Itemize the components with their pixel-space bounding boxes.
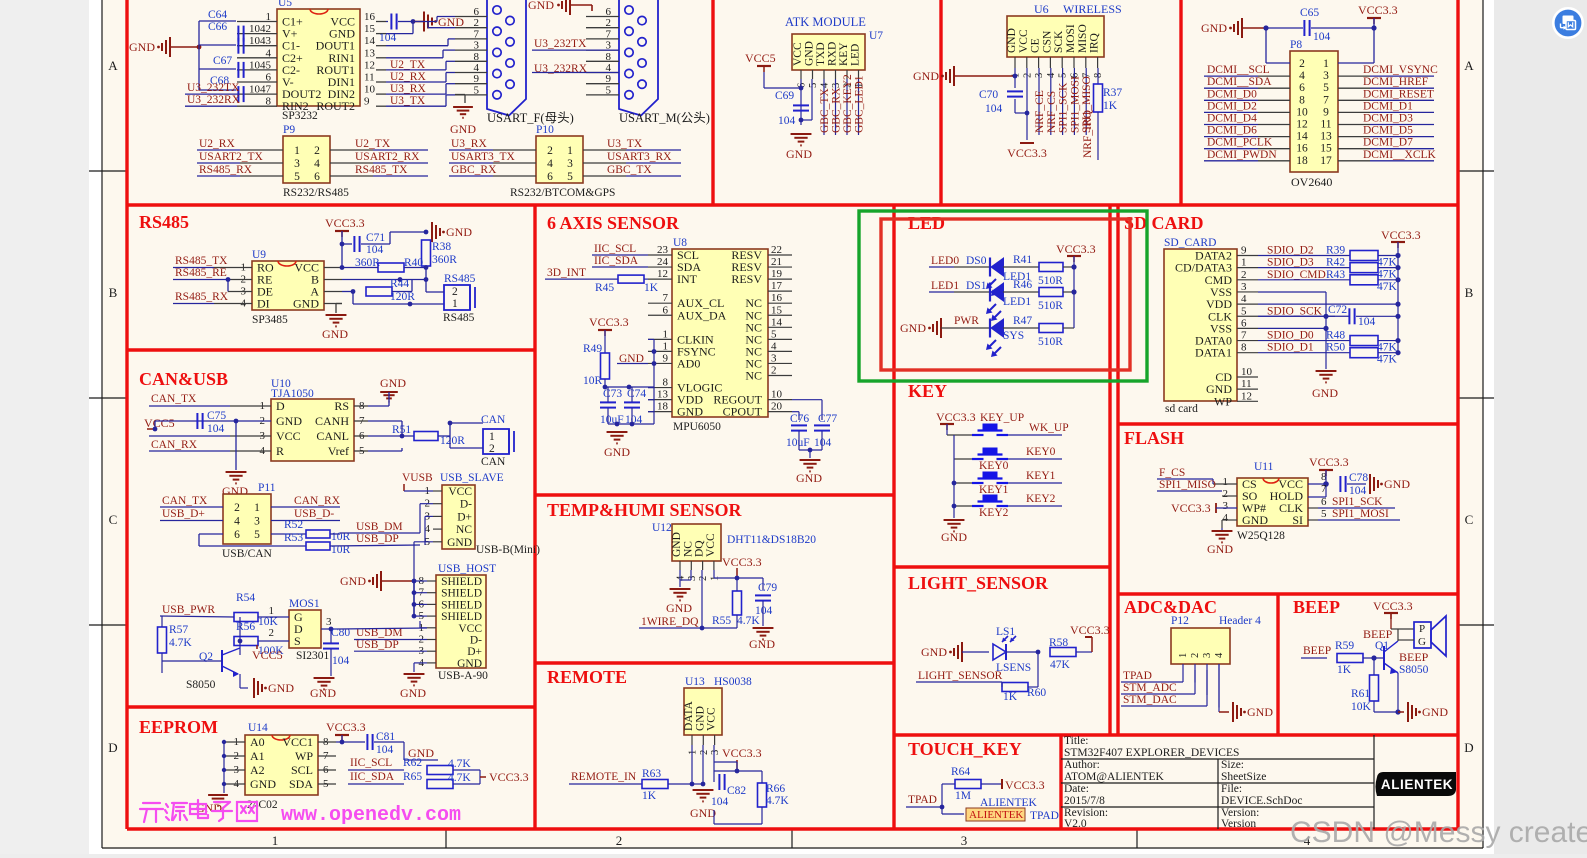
svg-text:1: 1 bbox=[1178, 653, 1189, 658]
svg-text:DCMI_D3: DCMI_D3 bbox=[1363, 113, 1413, 125]
svg-text:VCC3.3: VCC3.3 bbox=[722, 746, 762, 760]
svg-text:12: 12 bbox=[364, 59, 375, 71]
svg-text:DCMI__XCLK: DCMI__XCLK bbox=[1363, 149, 1437, 161]
svg-text:16: 16 bbox=[771, 292, 783, 304]
svg-text:1: 1 bbox=[1223, 476, 1229, 488]
svg-text:CAN_TX: CAN_TX bbox=[151, 393, 197, 405]
svg-text:R52: R52 bbox=[284, 519, 303, 531]
svg-text:R43: R43 bbox=[1326, 269, 1345, 281]
svg-text:D-: D- bbox=[460, 499, 472, 511]
svg-text:R46: R46 bbox=[1013, 279, 1032, 291]
svg-text:USB-A-90: USB-A-90 bbox=[438, 670, 488, 682]
svg-text:7: 7 bbox=[1321, 483, 1327, 495]
svg-text:R64: R64 bbox=[951, 766, 970, 778]
svg-text:SD CARD: SD CARD bbox=[1124, 213, 1204, 233]
svg-text:GND: GND bbox=[268, 681, 294, 695]
svg-text:SI: SI bbox=[1292, 513, 1303, 527]
svg-text:R53: R53 bbox=[284, 532, 303, 544]
svg-text:GBC_KEY2: GBC_KEY2 bbox=[842, 74, 854, 133]
svg-text:SDIO_D2: SDIO_D2 bbox=[1267, 245, 1314, 257]
svg-text:5: 5 bbox=[1321, 508, 1327, 520]
svg-text:S8050: S8050 bbox=[186, 679, 216, 691]
svg-text:P8: P8 bbox=[1290, 39, 1302, 51]
svg-text:4: 4 bbox=[1299, 70, 1305, 82]
svg-text:GBC_RX: GBC_RX bbox=[451, 164, 497, 176]
svg-text:GND: GND bbox=[1312, 386, 1338, 400]
svg-text:IIC_SDA: IIC_SDA bbox=[594, 255, 639, 267]
svg-text:TEMP&HUMI SENSOR: TEMP&HUMI SENSOR bbox=[547, 500, 743, 520]
svg-text:RS485_TX: RS485_TX bbox=[355, 164, 408, 176]
svg-text:CSN: CSN bbox=[1041, 30, 1053, 53]
svg-text:GND: GND bbox=[913, 69, 939, 83]
svg-text:47K: 47K bbox=[1050, 659, 1071, 671]
svg-text:KEY1: KEY1 bbox=[1026, 470, 1056, 482]
svg-text:DS1: DS1 bbox=[966, 280, 987, 292]
svg-text:RS232/BTCOM&GPS: RS232/BTCOM&GPS bbox=[510, 187, 615, 199]
svg-text:RIN2: RIN2 bbox=[282, 99, 309, 113]
svg-text:U3_RX: U3_RX bbox=[390, 83, 426, 95]
svg-text:6: 6 bbox=[1241, 317, 1247, 329]
svg-text:W25Q128: W25Q128 bbox=[1237, 530, 1285, 542]
svg-text:R42: R42 bbox=[1326, 257, 1345, 269]
svg-text:D: D bbox=[1464, 740, 1473, 755]
svg-text:6 AXIS SENSOR: 6 AXIS SENSOR bbox=[547, 213, 680, 233]
svg-text:104: 104 bbox=[207, 423, 225, 435]
svg-text:U5: U5 bbox=[278, 0, 292, 9]
svg-text:GND: GND bbox=[666, 601, 692, 615]
svg-text:13: 13 bbox=[364, 47, 376, 59]
svg-text:VCC3.3: VCC3.3 bbox=[1309, 455, 1349, 469]
svg-text:SPI1_MOSI: SPI1_MOSI bbox=[1332, 508, 1389, 520]
svg-text:KEY1: KEY1 bbox=[979, 484, 1009, 496]
svg-text:WK_UP: WK_UP bbox=[1029, 422, 1069, 434]
svg-text:GND: GND bbox=[447, 537, 472, 549]
svg-text:SCK: SCK bbox=[1053, 30, 1065, 53]
svg-text:GND: GND bbox=[457, 658, 482, 670]
svg-text:R62: R62 bbox=[403, 757, 422, 769]
svg-text:6: 6 bbox=[1299, 82, 1305, 94]
svg-text:3D_INT: 3D_INT bbox=[547, 267, 586, 279]
svg-text:9: 9 bbox=[663, 352, 669, 364]
svg-text:Version: Version bbox=[1221, 818, 1256, 830]
svg-text:Size:: Size: bbox=[1221, 759, 1244, 771]
svg-text:SPI1_SCK: SPI1_SCK bbox=[1332, 496, 1383, 508]
svg-text:1: 1 bbox=[294, 145, 300, 157]
svg-text:BEEP: BEEP bbox=[1303, 645, 1331, 657]
svg-text:GND: GND bbox=[1207, 542, 1233, 556]
svg-text:1: 1 bbox=[254, 502, 260, 514]
svg-text:104: 104 bbox=[985, 103, 1003, 115]
svg-text:NC: NC bbox=[456, 524, 472, 536]
svg-text:GND: GND bbox=[400, 686, 426, 700]
svg-text:ROUT2: ROUT2 bbox=[316, 99, 355, 113]
svg-text:GBC_LED1: GBC_LED1 bbox=[854, 75, 866, 133]
svg-text:15: 15 bbox=[771, 304, 783, 316]
svg-text:GND: GND bbox=[1242, 513, 1268, 527]
svg-text:2: 2 bbox=[489, 443, 495, 455]
svg-text:1: 1 bbox=[688, 750, 699, 755]
svg-text:R47: R47 bbox=[1013, 315, 1032, 327]
svg-text:10K: 10K bbox=[258, 616, 279, 628]
svg-text:INT: INT bbox=[677, 272, 698, 286]
svg-text:R60: R60 bbox=[1027, 687, 1046, 699]
svg-text:4: 4 bbox=[1214, 652, 1225, 658]
svg-text:FLASH: FLASH bbox=[1124, 428, 1184, 448]
svg-text:6: 6 bbox=[1321, 496, 1327, 508]
svg-text:16: 16 bbox=[364, 11, 376, 23]
svg-text:DCMI_D5: DCMI_D5 bbox=[1363, 125, 1413, 137]
svg-text:LIGHT_SENSOR: LIGHT_SENSOR bbox=[918, 670, 1003, 682]
svg-text:SDIO_D0: SDIO_D0 bbox=[1267, 330, 1314, 342]
svg-text:DCMI_VSYNC: DCMI_VSYNC bbox=[1363, 64, 1438, 76]
svg-text:DCMI__SDA: DCMI__SDA bbox=[1207, 76, 1272, 88]
svg-text:GND: GND bbox=[129, 40, 155, 54]
svg-text:12: 12 bbox=[1296, 119, 1308, 131]
svg-text:CAN: CAN bbox=[481, 456, 506, 468]
svg-text:CANH: CANH bbox=[315, 414, 349, 428]
svg-text:A0: A0 bbox=[250, 735, 265, 749]
svg-text:REMOTE: REMOTE bbox=[547, 667, 627, 687]
svg-text:C67: C67 bbox=[213, 55, 232, 67]
svg-text:CAN: CAN bbox=[481, 414, 506, 426]
svg-text:CAN_RX: CAN_RX bbox=[294, 495, 341, 507]
svg-text:R49: R49 bbox=[583, 343, 602, 355]
svg-text:TOUCH_KEY: TOUCH_KEY bbox=[908, 739, 1022, 759]
svg-text:V2.0: V2.0 bbox=[1064, 818, 1087, 830]
svg-text:8: 8 bbox=[1241, 342, 1247, 354]
svg-text:VCC5: VCC5 bbox=[144, 416, 175, 430]
svg-text:RS485_RE: RS485_RE bbox=[175, 267, 227, 279]
svg-text:SDIO_D3: SDIO_D3 bbox=[1267, 257, 1314, 269]
svg-text:SHIELD: SHIELD bbox=[441, 599, 482, 611]
svg-text:VCC3.3: VCC3.3 bbox=[936, 410, 976, 424]
svg-text:2: 2 bbox=[314, 145, 320, 157]
svg-text:R50: R50 bbox=[1326, 342, 1345, 354]
svg-text:BEEP: BEEP bbox=[1363, 627, 1393, 641]
svg-text:R39: R39 bbox=[1326, 245, 1345, 257]
svg-text:5: 5 bbox=[808, 83, 819, 88]
svg-text:LIGHT_SENSOR: LIGHT_SENSOR bbox=[908, 573, 1049, 593]
svg-text:120R: 120R bbox=[390, 291, 415, 303]
svg-text:IIC_SDA: IIC_SDA bbox=[350, 771, 395, 783]
svg-text:3: 3 bbox=[1323, 70, 1329, 82]
svg-text:sd card: sd card bbox=[1165, 403, 1198, 415]
svg-text:1: 1 bbox=[567, 145, 573, 157]
svg-text:C: C bbox=[109, 512, 118, 527]
svg-text:16: 16 bbox=[1296, 143, 1308, 155]
svg-text:RS485_RX: RS485_RX bbox=[199, 164, 253, 176]
svg-text:GND: GND bbox=[1422, 705, 1448, 719]
svg-text:2: 2 bbox=[1022, 73, 1033, 78]
svg-text:VCC: VCC bbox=[706, 707, 718, 731]
svg-text:2: 2 bbox=[1299, 58, 1305, 70]
svg-text:U12: U12 bbox=[652, 522, 672, 534]
svg-text:C64: C64 bbox=[208, 9, 227, 21]
svg-text:R48: R48 bbox=[1326, 330, 1345, 342]
svg-text:VCC1: VCC1 bbox=[282, 735, 313, 749]
svg-text:14: 14 bbox=[364, 35, 376, 47]
svg-text:5: 5 bbox=[771, 328, 777, 340]
svg-text:C70: C70 bbox=[979, 89, 998, 101]
svg-text:RS485: RS485 bbox=[444, 273, 476, 285]
svg-text:RS232/RS485: RS232/RS485 bbox=[283, 187, 349, 199]
svg-text:360R: 360R bbox=[432, 254, 457, 266]
svg-text:1K: 1K bbox=[644, 282, 659, 294]
svg-text:SP3485: SP3485 bbox=[252, 314, 288, 326]
svg-text:2: 2 bbox=[269, 627, 275, 639]
svg-text:510R: 510R bbox=[1038, 275, 1063, 287]
svg-text:C77: C77 bbox=[818, 413, 837, 425]
svg-text:7: 7 bbox=[663, 292, 669, 304]
svg-text:1K: 1K bbox=[1103, 100, 1118, 112]
svg-text:21: 21 bbox=[771, 256, 782, 268]
svg-text:DEVICE.SchDoc: DEVICE.SchDoc bbox=[1221, 795, 1302, 807]
svg-text:ATK MODULE: ATK MODULE bbox=[785, 15, 866, 29]
svg-text:2015/7/8: 2015/7/8 bbox=[1064, 795, 1105, 807]
svg-text:P9: P9 bbox=[283, 124, 295, 136]
svg-text:10: 10 bbox=[1241, 366, 1253, 378]
svg-text:2: 2 bbox=[771, 365, 777, 377]
svg-text:GND: GND bbox=[322, 327, 348, 341]
svg-text:U14: U14 bbox=[248, 722, 268, 734]
svg-text:U11: U11 bbox=[1254, 461, 1274, 473]
svg-text:14: 14 bbox=[1296, 131, 1308, 143]
svg-text:R65: R65 bbox=[403, 771, 422, 783]
svg-text:510R: 510R bbox=[1038, 336, 1063, 348]
svg-text:USB_SLAVE: USB_SLAVE bbox=[440, 472, 504, 484]
svg-text:LED1: LED1 bbox=[1003, 296, 1031, 308]
svg-text:3: 3 bbox=[1223, 500, 1229, 512]
svg-text:4: 4 bbox=[314, 158, 320, 170]
svg-text:R57: R57 bbox=[169, 624, 188, 636]
svg-text:D+: D+ bbox=[457, 511, 472, 523]
svg-text:GND: GND bbox=[446, 225, 472, 239]
svg-text:MISO: MISO bbox=[1077, 24, 1089, 53]
svg-text:15: 15 bbox=[364, 23, 376, 35]
svg-text:DHT11&DS18B20: DHT11&DS18B20 bbox=[727, 534, 816, 546]
svg-text:C: C bbox=[1465, 512, 1474, 527]
svg-text:TPAD: TPAD bbox=[1030, 810, 1059, 822]
svg-text:2: 2 bbox=[1241, 269, 1247, 281]
svg-text:SDIO_CMD: SDIO_CMD bbox=[1267, 269, 1326, 281]
svg-text:Title:: Title: bbox=[1064, 735, 1089, 747]
svg-text:LED1: LED1 bbox=[931, 280, 959, 292]
svg-text:VCC3.3: VCC3.3 bbox=[326, 720, 366, 734]
svg-text:SCL: SCL bbox=[291, 763, 313, 777]
svg-text:VCC3.3: VCC3.3 bbox=[325, 216, 365, 230]
svg-text:USB_DP: USB_DP bbox=[356, 533, 399, 545]
svg-text:C66: C66 bbox=[208, 21, 227, 33]
svg-text:17: 17 bbox=[771, 280, 783, 292]
svg-text:U2_RX: U2_RX bbox=[199, 138, 235, 150]
svg-text:S8050: S8050 bbox=[1399, 664, 1429, 676]
svg-text:USART_M(公头): USART_M(公头) bbox=[619, 111, 710, 125]
svg-text:DQ: DQ bbox=[694, 540, 706, 557]
svg-text:ADC&DAC: ADC&DAC bbox=[1124, 597, 1217, 617]
svg-text:NRF_CE: NRF_CE bbox=[1034, 90, 1046, 133]
svg-text:3: 3 bbox=[1241, 281, 1247, 293]
svg-text:GND: GND bbox=[1201, 21, 1227, 35]
svg-text:1M: 1M bbox=[955, 790, 971, 802]
svg-text:AD0: AD0 bbox=[677, 356, 700, 370]
svg-text:U3_232TX: U3_232TX bbox=[534, 38, 587, 50]
svg-text:3: 3 bbox=[1202, 653, 1213, 658]
svg-text:D+: D+ bbox=[467, 646, 482, 658]
svg-text:OV2640: OV2640 bbox=[1291, 175, 1332, 189]
svg-text:10uF: 10uF bbox=[786, 437, 810, 449]
svg-text:1: 1 bbox=[1323, 58, 1329, 70]
svg-text:DCMI_D4: DCMI_D4 bbox=[1207, 113, 1257, 125]
svg-text:SDA: SDA bbox=[289, 777, 313, 791]
svg-text:9: 9 bbox=[1323, 106, 1329, 118]
svg-text:GND: GND bbox=[250, 777, 276, 791]
svg-text:C76: C76 bbox=[790, 413, 809, 425]
svg-text:D: D bbox=[108, 740, 117, 755]
svg-text:13: 13 bbox=[657, 389, 669, 401]
svg-text:GND: GND bbox=[1247, 705, 1273, 719]
svg-text:CPOUT: CPOUT bbox=[723, 405, 763, 419]
svg-text:TXD: TXD bbox=[815, 42, 827, 66]
svg-text:5: 5 bbox=[1241, 305, 1247, 317]
svg-text:CE: CE bbox=[1030, 38, 1042, 53]
svg-text:R37: R37 bbox=[1103, 87, 1122, 99]
svg-text:VCC: VCC bbox=[276, 429, 301, 443]
svg-text:DATA: DATA bbox=[683, 701, 695, 731]
svg-text:GND: GND bbox=[450, 122, 476, 136]
svg-text:18: 18 bbox=[657, 401, 669, 413]
svg-text:23: 23 bbox=[657, 244, 669, 256]
svg-text:LED0: LED0 bbox=[931, 255, 959, 267]
svg-text:2: 2 bbox=[1190, 653, 1201, 658]
svg-text:CAN_TX: CAN_TX bbox=[162, 495, 208, 507]
svg-text:U3_232RX: U3_232RX bbox=[187, 94, 241, 106]
svg-text:RS485_RX: RS485_RX bbox=[175, 291, 229, 303]
svg-text:IIC_SCL: IIC_SCL bbox=[594, 243, 636, 255]
svg-text:USB_HOST: USB_HOST bbox=[438, 563, 496, 575]
svg-text:D-: D- bbox=[470, 635, 482, 647]
svg-text:1: 1 bbox=[663, 328, 669, 340]
svg-text:8: 8 bbox=[1299, 94, 1305, 106]
svg-text:GND: GND bbox=[604, 445, 630, 459]
svg-text:VUSB: VUSB bbox=[402, 472, 433, 484]
svg-text:NC: NC bbox=[745, 369, 762, 383]
svg-text:KEY2: KEY2 bbox=[979, 507, 1009, 519]
svg-text:RS485: RS485 bbox=[139, 212, 189, 232]
svg-text:USB_DP: USB_DP bbox=[356, 639, 399, 651]
svg-text:NRF_IRQ: NRF_IRQ bbox=[1082, 109, 1094, 158]
svg-text:P: P bbox=[1419, 623, 1425, 635]
svg-text:GND: GND bbox=[677, 405, 703, 419]
svg-text:ALIENTEK: ALIENTEK bbox=[1381, 777, 1453, 792]
svg-text:12: 12 bbox=[1241, 390, 1252, 402]
svg-text:SPI1_MOSI: SPI1_MOSI bbox=[1069, 76, 1081, 133]
svg-text:G: G bbox=[1418, 636, 1426, 648]
svg-text:HS0038: HS0038 bbox=[714, 676, 752, 688]
svg-text:VCC3.3: VCC3.3 bbox=[1171, 501, 1211, 515]
svg-text:47K: 47K bbox=[1377, 354, 1398, 366]
svg-text:REMOTE_IN: REMOTE_IN bbox=[571, 771, 637, 783]
svg-text:GND: GND bbox=[1384, 477, 1410, 491]
svg-text:GND: GND bbox=[340, 574, 366, 588]
svg-text:2: 2 bbox=[1223, 488, 1229, 500]
svg-text:GND: GND bbox=[528, 0, 554, 12]
svg-text:GBC_TX: GBC_TX bbox=[819, 88, 831, 133]
svg-text:1: 1 bbox=[272, 833, 279, 848]
svg-text:6: 6 bbox=[663, 304, 669, 316]
svg-text:SHIELD: SHIELD bbox=[441, 576, 482, 588]
svg-text:U3_RX: U3_RX bbox=[451, 138, 487, 150]
svg-text:KEY: KEY bbox=[838, 42, 850, 66]
svg-text:10: 10 bbox=[364, 84, 376, 96]
svg-text:S: S bbox=[294, 634, 301, 648]
svg-text:GND: GND bbox=[1006, 28, 1018, 53]
svg-text:MOSI: MOSI bbox=[1065, 24, 1077, 53]
svg-text:GBC_RX: GBC_RX bbox=[831, 87, 843, 133]
svg-text:TPAD: TPAD bbox=[908, 794, 937, 806]
svg-text:GND: GND bbox=[941, 530, 967, 544]
svg-text:VCC5: VCC5 bbox=[745, 51, 776, 65]
svg-text:GND: GND bbox=[804, 41, 816, 66]
svg-text:2: 2 bbox=[547, 145, 553, 157]
svg-text:D: D bbox=[276, 399, 285, 413]
svg-text:P12: P12 bbox=[1171, 615, 1189, 627]
svg-text:19: 19 bbox=[771, 268, 783, 280]
svg-text:7: 7 bbox=[1241, 330, 1247, 342]
svg-text:GND: GND bbox=[749, 637, 775, 651]
svg-text:1K: 1K bbox=[1337, 664, 1352, 676]
svg-text:11: 11 bbox=[1320, 119, 1331, 131]
svg-text:4.7K: 4.7K bbox=[766, 795, 789, 807]
svg-text:KEY0: KEY0 bbox=[979, 460, 1009, 472]
svg-text:R56: R56 bbox=[236, 621, 255, 633]
svg-text:GND: GND bbox=[921, 645, 947, 659]
svg-text:GND: GND bbox=[310, 686, 336, 700]
svg-text:WIRELESS: WIRELESS bbox=[1063, 2, 1122, 16]
svg-text:VCC3.3: VCC3.3 bbox=[1007, 146, 1047, 160]
svg-text:A2: A2 bbox=[250, 763, 265, 777]
svg-text:104: 104 bbox=[332, 655, 350, 667]
svg-text:File:: File: bbox=[1221, 783, 1242, 795]
svg-text:GND: GND bbox=[380, 376, 406, 390]
svg-text:www.openedv.com: www.openedv.com bbox=[281, 804, 461, 827]
svg-text:3: 3 bbox=[294, 158, 300, 170]
svg-text:15: 15 bbox=[1320, 143, 1332, 155]
svg-text:USB/CAN: USB/CAN bbox=[222, 548, 273, 560]
svg-text:C81: C81 bbox=[376, 731, 395, 743]
svg-text:VCC5: VCC5 bbox=[252, 648, 283, 662]
svg-text:KEY0: KEY0 bbox=[1026, 446, 1056, 458]
svg-text:DCMI_D0: DCMI_D0 bbox=[1207, 88, 1257, 100]
svg-text:VCC3.3: VCC3.3 bbox=[722, 555, 762, 569]
svg-text:RS485_TX: RS485_TX bbox=[175, 255, 228, 267]
svg-text:U2_RX: U2_RX bbox=[390, 71, 426, 83]
svg-text:8: 8 bbox=[663, 377, 669, 389]
svg-text:IIC_SCL: IIC_SCL bbox=[350, 757, 392, 769]
svg-text:GND: GND bbox=[276, 414, 302, 428]
svg-text:USB_D+: USB_D+ bbox=[162, 508, 205, 520]
svg-text:DCMI_PWDN: DCMI_PWDN bbox=[1207, 149, 1277, 161]
svg-text:VCC3.3: VCC3.3 bbox=[1358, 3, 1398, 17]
svg-text:GND: GND bbox=[671, 532, 683, 557]
svg-text:R44: R44 bbox=[390, 278, 409, 290]
svg-text:VCC: VCC bbox=[448, 486, 472, 498]
svg-text:120R: 120R bbox=[440, 435, 465, 447]
svg-text:17: 17 bbox=[1320, 155, 1332, 167]
svg-text:510R: 510R bbox=[1038, 300, 1063, 312]
svg-text:SPI1_MISO: SPI1_MISO bbox=[1159, 479, 1216, 491]
svg-text:R45: R45 bbox=[595, 282, 614, 294]
svg-text:DCMI_PCLK: DCMI_PCLK bbox=[1207, 137, 1273, 149]
